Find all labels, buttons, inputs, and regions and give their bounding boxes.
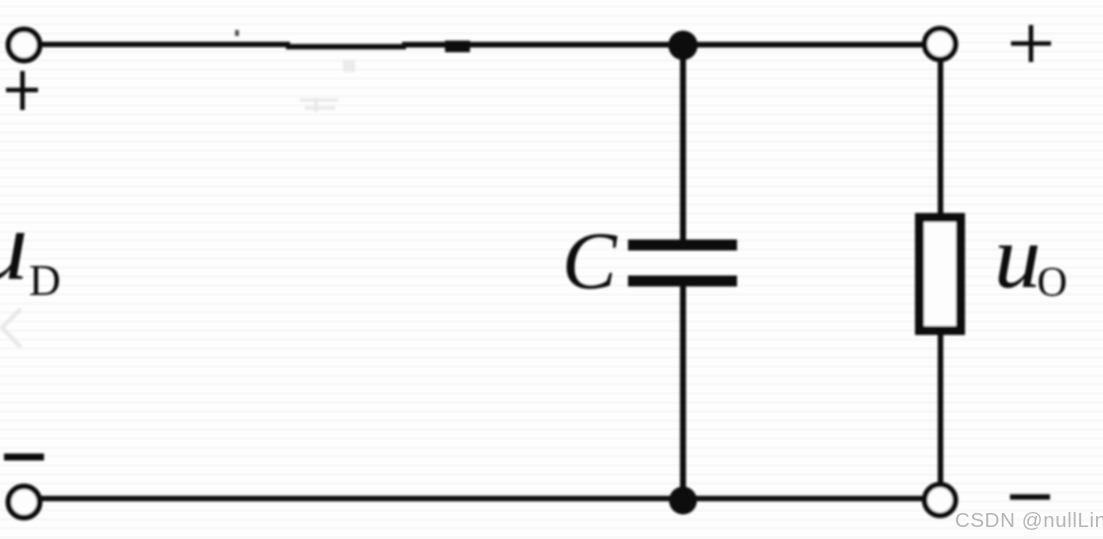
wire load bottom lead xyxy=(938,333,944,486)
svg-text:D: D xyxy=(29,256,61,305)
plus sign top-left xyxy=(6,88,38,93)
wire bottom xyxy=(41,496,923,502)
minus sign bottom-right xyxy=(1010,494,1050,500)
svg-text:u: u xyxy=(0,190,28,301)
resistor RL (load) xyxy=(920,218,961,331)
terminal top-left xyxy=(8,29,39,60)
wire top (right segment) xyxy=(402,42,923,48)
node dot top junction xyxy=(668,31,697,60)
capacitor C1 top plate xyxy=(628,240,737,251)
svg-text:u: u xyxy=(994,208,1041,307)
capacitor C1 bottom plate xyxy=(628,276,737,287)
smudge faint 2 xyxy=(300,98,338,112)
wire top thick blob xyxy=(445,41,470,53)
smudge speck xyxy=(235,30,239,36)
terminal top-right xyxy=(925,29,956,60)
wire capacitor bottom lead xyxy=(680,285,686,500)
node dot bottom junction xyxy=(669,487,697,515)
wire top (left segment) xyxy=(41,42,290,47)
wire top (middle dipped segment) xyxy=(286,44,406,49)
svg-text:O: O xyxy=(1037,260,1067,306)
svg-text:CSDN @nullLin: CSDN @nullLin xyxy=(955,509,1103,532)
svg-text:C: C xyxy=(562,215,618,306)
wire capacitor top lead xyxy=(680,45,686,241)
wire load top lead xyxy=(938,60,944,215)
plus sign top-right xyxy=(1011,41,1051,46)
terminal bottom-right xyxy=(925,485,956,516)
overlay chevron left xyxy=(2,310,20,346)
smudge faint 1 xyxy=(343,60,355,72)
minus sign bottom-left xyxy=(4,454,44,461)
terminal bottom-left xyxy=(8,486,39,517)
